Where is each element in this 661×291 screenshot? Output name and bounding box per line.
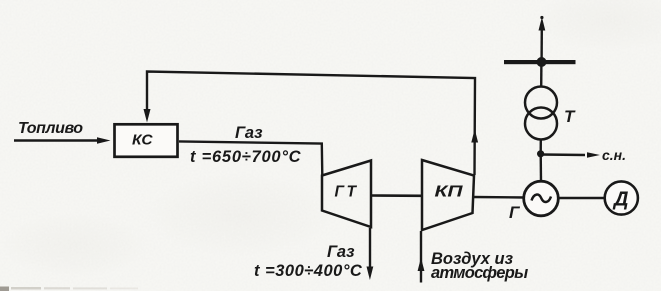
svg-text:Газ: Газ: [235, 124, 263, 142]
wire КП to generator: [473, 196, 525, 199]
svg-text:ГТ: ГТ: [335, 184, 358, 201]
compressor КП: [422, 160, 474, 230]
svg-text:Газ: Газ: [327, 243, 355, 261]
wire shaft ГТ-КП: [371, 194, 422, 197]
svg-text:с.н.: с.н.: [602, 147, 626, 163]
busbar: [504, 60, 576, 64]
gas turbine ГТ: [322, 161, 371, 228]
wire exhaust gas down arrow: [369, 228, 371, 270]
node junction dot: [537, 150, 544, 157]
wire generator up to node: [540, 153, 543, 182]
wire air intake arrow up: [420, 231, 422, 283]
svg-text:t =650÷700°C: t =650÷700°C: [190, 148, 302, 166]
wire to grid arrow up: [540, 28, 543, 60]
combustion chamber КС: [115, 124, 178, 157]
transformer Т: [525, 108, 557, 140]
node bus junction dot: [537, 57, 547, 67]
generator Г: [524, 181, 559, 216]
wire fuel input arrow: [14, 139, 99, 142]
svg-text:КС: КС: [132, 132, 154, 149]
svg-text:Т: Т: [564, 107, 576, 126]
wire с.н. branch arrow: [541, 153, 585, 156]
svg-text:КП: КП: [435, 184, 464, 201]
svg-text:t =300÷400°C: t =300÷400°C: [254, 262, 363, 280]
wire feedback КП to КС: [147, 72, 475, 176]
smudge bottom-left: [0, 287, 9, 291]
svg-text:Г: Г: [509, 203, 521, 222]
wire Г to Д: [558, 197, 607, 199]
svg-text:атмосферы: атмосферы: [431, 264, 528, 282]
svg-text:Д: Д: [612, 189, 628, 211]
wire node to transformer: [540, 140, 542, 154]
wire transformer to bus: [540, 62, 543, 87]
motor Д: [605, 181, 638, 214]
wire gas КС to ГТ: [179, 141, 322, 176]
svg-text:Топливо: Топливо: [18, 120, 83, 137]
